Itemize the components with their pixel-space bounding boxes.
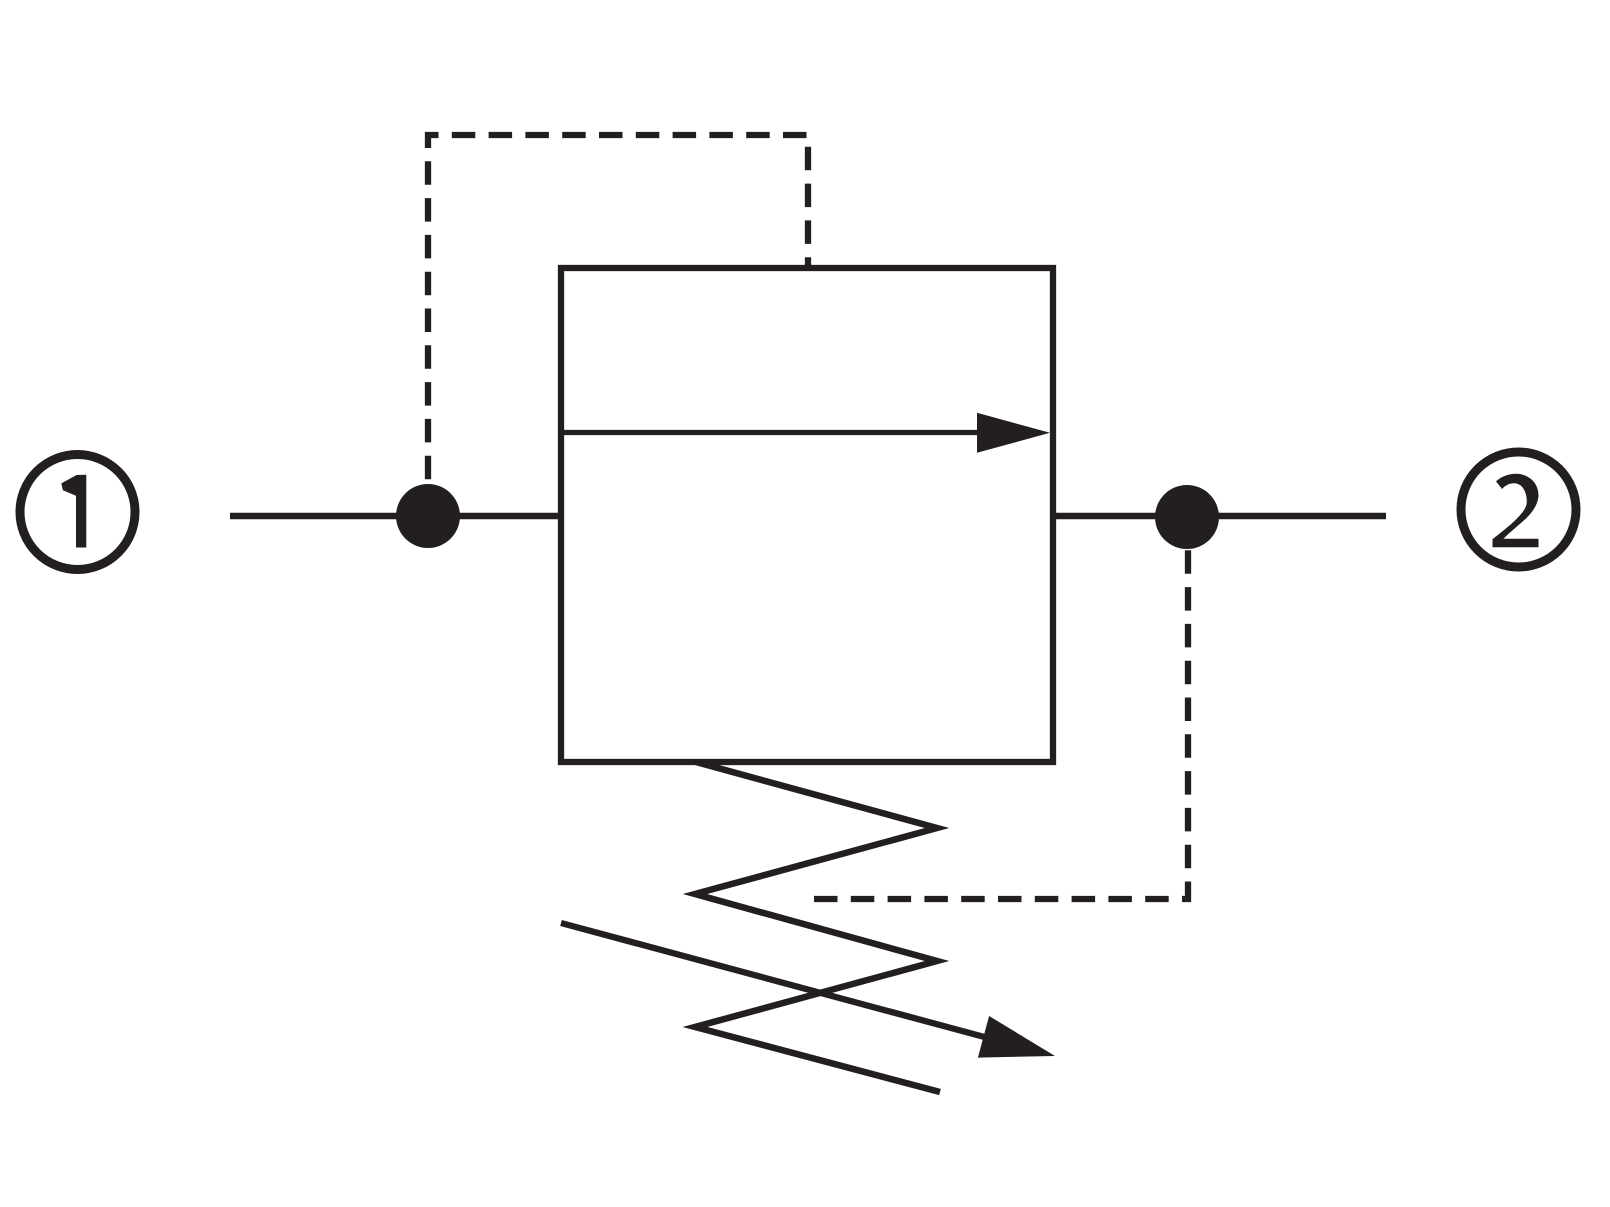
pilot line (dashed) node 1 to valve top xyxy=(428,135,808,516)
junction node 1 xyxy=(396,484,460,548)
flow arrow head xyxy=(977,413,1050,453)
port 1 circle label xyxy=(20,455,135,570)
adjustment arrow head xyxy=(978,1016,1055,1058)
wire port 2 xyxy=(1056,513,1386,520)
spring xyxy=(695,762,940,1092)
junction node 2 xyxy=(1155,485,1219,549)
pilot line (dashed) node 2 to spring end xyxy=(814,517,1188,899)
port 2 circle label xyxy=(1461,452,1576,567)
adjustment arrow shaft xyxy=(561,923,990,1039)
flow arrow shaft xyxy=(564,430,985,435)
valve body box xyxy=(561,268,1053,762)
wire port 1 xyxy=(230,513,564,520)
